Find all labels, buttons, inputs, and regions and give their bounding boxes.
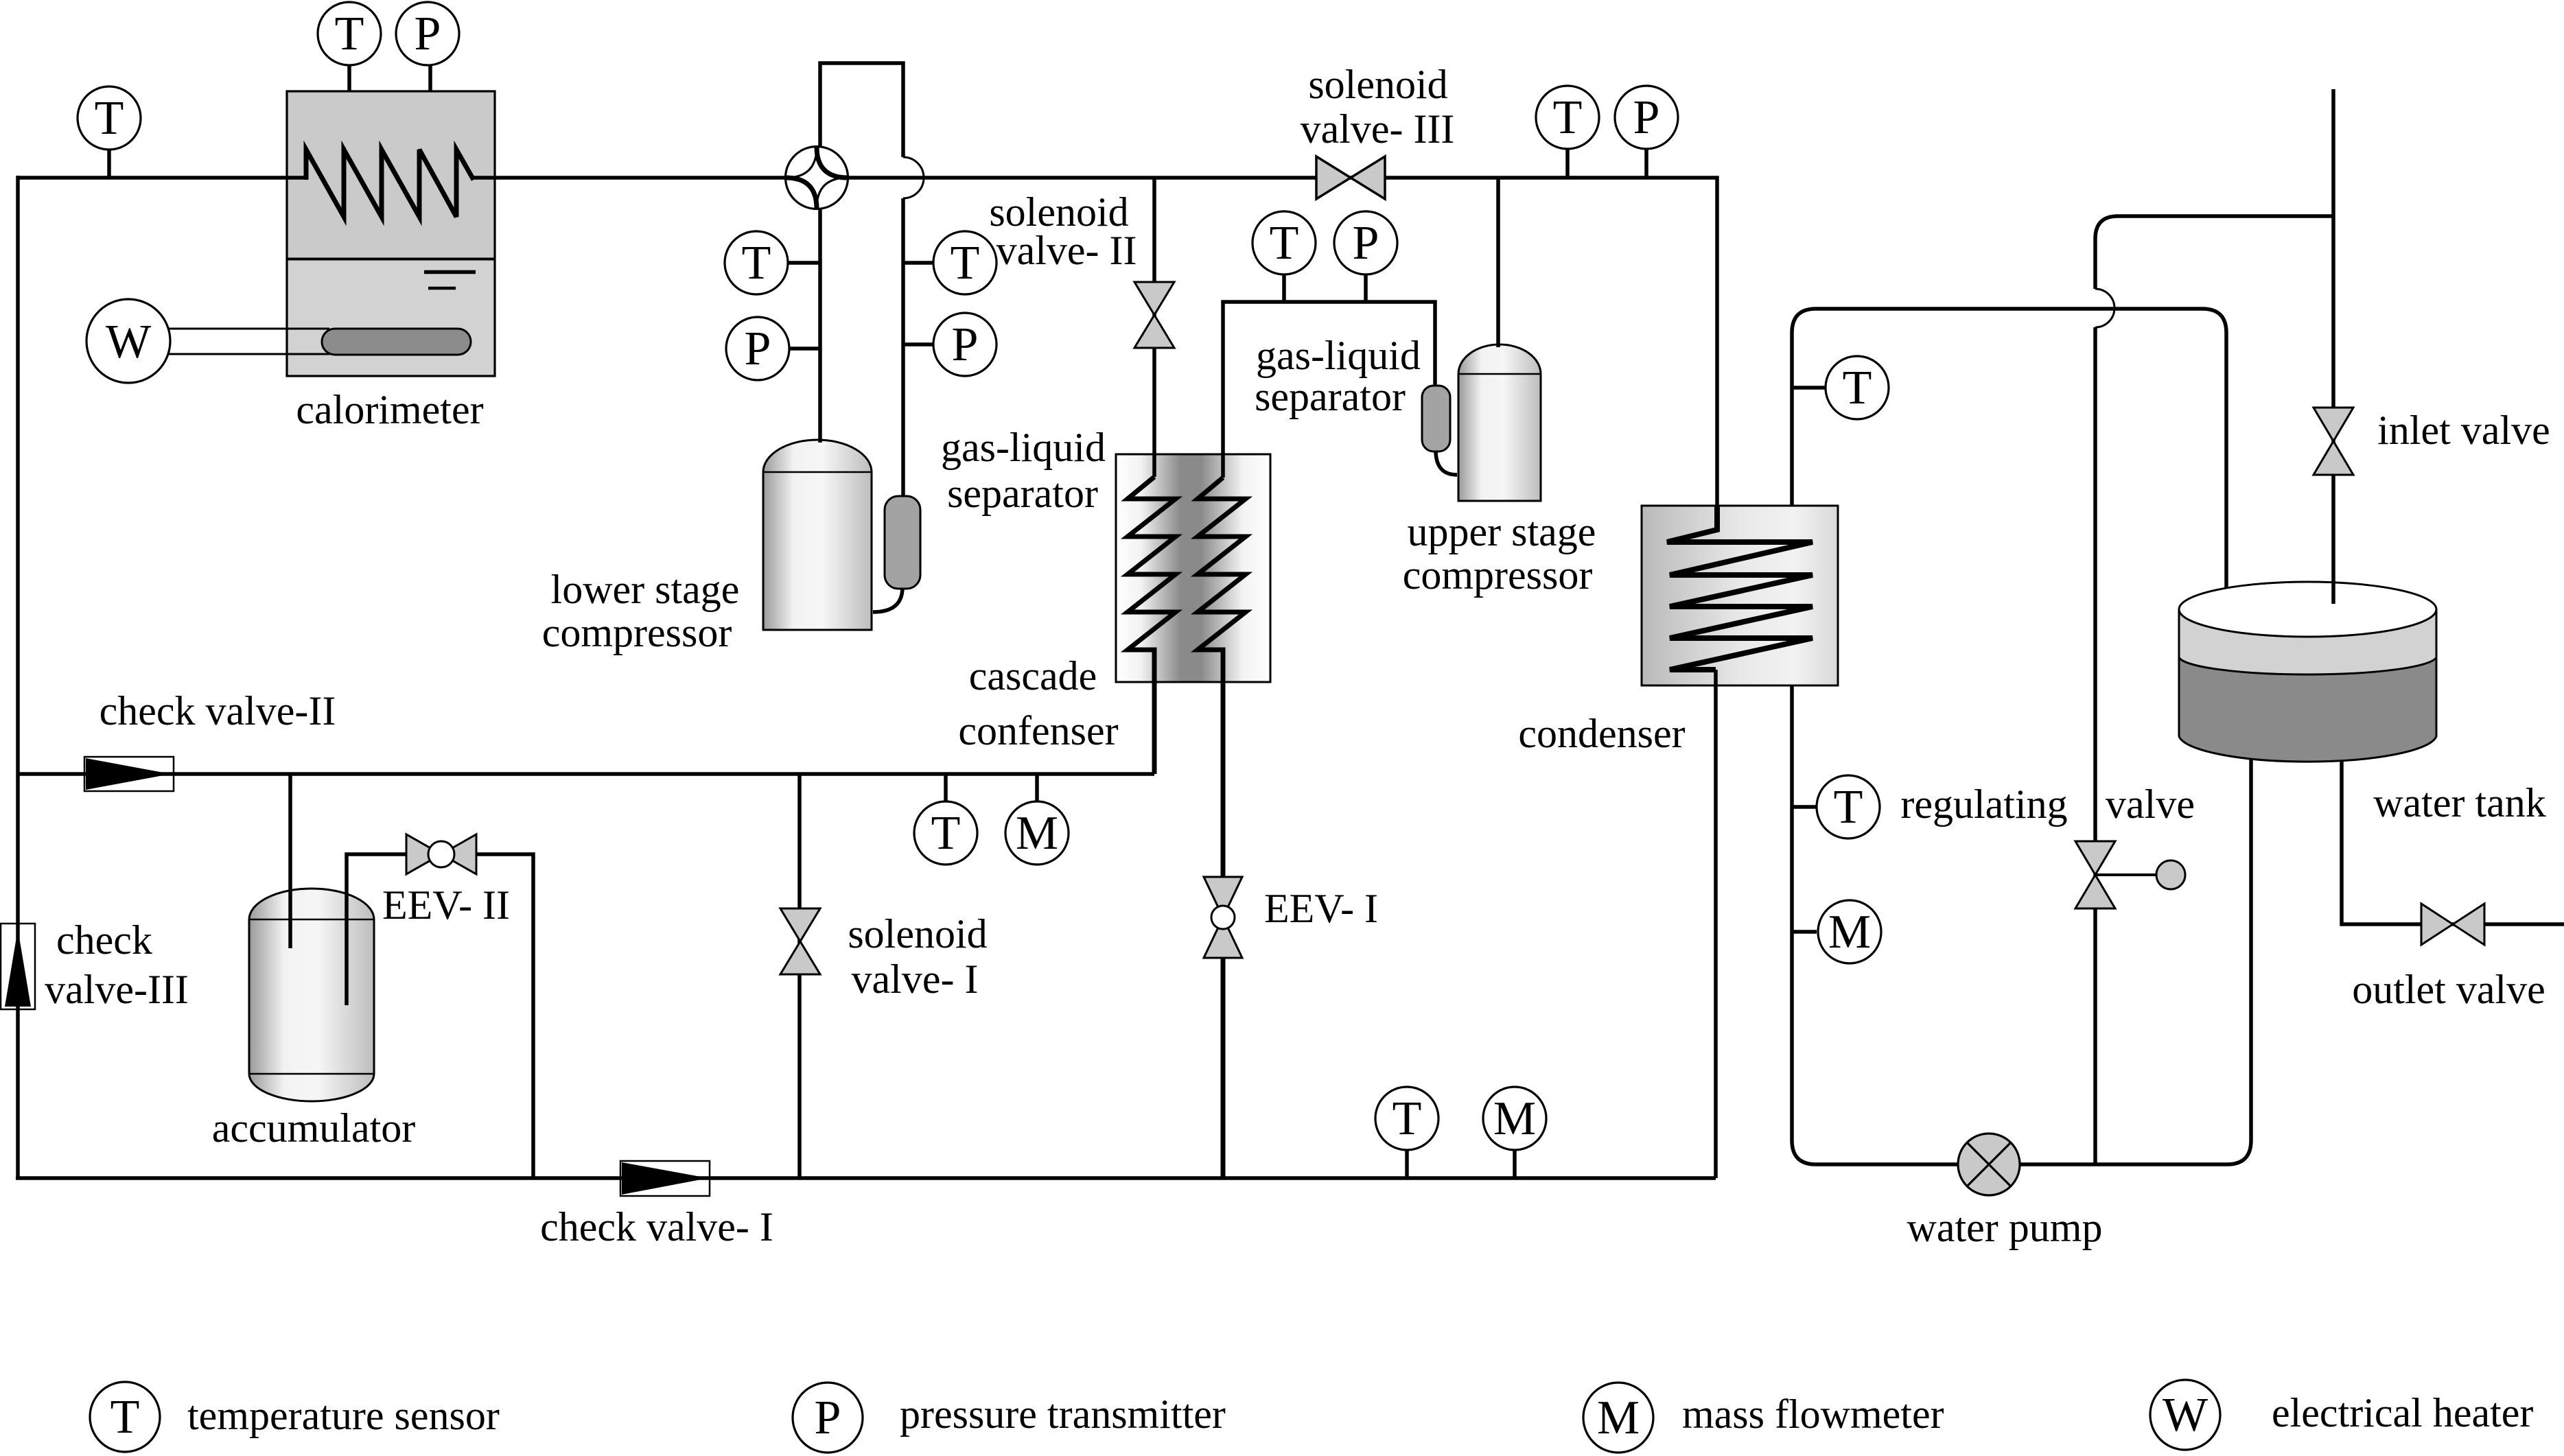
stem: water down T sensor: [1792, 805, 1817, 809]
wire: outlet line from tank: [2342, 760, 2564, 924]
svg-text:confenser: confenser: [958, 708, 1118, 753]
check valve III: [1, 924, 35, 1009]
solenoid valve I: [780, 908, 820, 974]
stem: T sensor on top main line: [107, 150, 111, 178]
stem: check line M sensor: [1035, 774, 1039, 802]
stem: upper suction T sensor: [1282, 274, 1286, 302]
wire: lower separator hook: [873, 587, 902, 612]
wire: water inlet line: [2331, 89, 2335, 604]
svg-text:accumulator: accumulator: [212, 1105, 416, 1151]
stem: calorimeter T sensor: [347, 65, 351, 91]
svg-text:T: T: [1834, 781, 1863, 834]
sensor M check line: [1005, 801, 1069, 865]
svg-text:valve- III: valve- III: [1301, 106, 1455, 152]
cascade condenser right coil: [1198, 478, 1246, 1178]
pipe hop on regulating line: [2095, 289, 2114, 327]
wire: condenser water down leg: [1792, 685, 2251, 1164]
sensor T riser: [933, 231, 997, 294]
svg-text:water pump: water pump: [1907, 1205, 2103, 1250]
legend pressure transmitter: [793, 1383, 1226, 1453]
svg-text:M: M: [1828, 906, 1871, 959]
wire: regulating valve line lower part: [2093, 327, 2097, 1164]
stem: water riser T sensor: [1792, 386, 1826, 390]
sensor P upper suction: [1334, 211, 1397, 274]
stem: riser T sensor right pair: [903, 261, 933, 265]
stem: upper suction P sensor: [1364, 274, 1368, 302]
svg-text:check valve-II: check valve-II: [100, 688, 336, 733]
accumulator vessel: [249, 889, 374, 1101]
svg-text:P: P: [952, 318, 979, 371]
water tank: [2179, 582, 2436, 762]
svg-text:water tank: water tank: [2373, 780, 2546, 825]
svg-text:T: T: [931, 807, 961, 860]
calorimeter vessel: [287, 91, 495, 376]
wire: bottom main line: [16, 1176, 1716, 1180]
svg-text:T: T: [110, 1391, 140, 1444]
condenser shell: [1642, 506, 1838, 685]
wire: riser down to lower separator: [901, 198, 905, 496]
sensor M bottom line: [1483, 1087, 1546, 1150]
sensor T water down: [1817, 775, 1880, 838]
svg-text:pressure transmitter: pressure transmitter: [900, 1392, 1226, 1437]
wire: EEV-II bypass loop: [347, 854, 533, 1178]
solenoid valve II: [1134, 282, 1174, 348]
legend temperature sensor: [90, 1382, 500, 1452]
electrical heater bar inside calorimeter: [322, 329, 471, 355]
svg-text:T: T: [742, 237, 771, 290]
sensor T check line: [914, 801, 977, 865]
svg-text:compressor: compressor: [542, 610, 732, 655]
svg-text:T: T: [1392, 1092, 1422, 1145]
wire: accumulator inlet drop: [288, 774, 292, 948]
svg-text:cascade: cascade: [969, 653, 1097, 698]
wire: top main line left of calorimeter coil: [18, 176, 306, 180]
wire: top main line from calorimeter to condenser corner: [474, 178, 1717, 506]
sensor P riser: [933, 313, 997, 376]
svg-text:P: P: [745, 322, 771, 375]
solenoid valve III: [1316, 156, 1385, 199]
svg-text:check valve- I: check valve- I: [540, 1204, 773, 1249]
wire: upper compressor suction line: [1223, 302, 1435, 478]
wire: solenoid valve I leg: [797, 774, 802, 1178]
svg-text:separator: separator: [947, 471, 1098, 516]
svg-text:M: M: [1493, 1092, 1536, 1145]
electrical heater W symbol: [86, 299, 170, 383]
stem: water down M sensor: [1792, 930, 1817, 934]
svg-text:solenoid: solenoid: [1308, 62, 1447, 107]
stem: bottom line T sensor: [1405, 1150, 1409, 1178]
gas-liquid separator (upper): [1422, 386, 1450, 451]
sensor T on calorimeter: [318, 2, 381, 65]
svg-text:outlet valve: outlet valve: [2352, 967, 2545, 1012]
stem: discharge P sensor: [1644, 149, 1648, 178]
svg-text:electrical heater: electrical heater: [2272, 1390, 2533, 1435]
legend mass flowmeter: [1583, 1383, 1944, 1453]
stem: calorimeter P sensor: [428, 65, 432, 91]
sensor T water riser: [1826, 356, 1889, 419]
stem: check line T sensor: [944, 774, 948, 802]
condenser refrigerant coil: [1667, 506, 1813, 670]
sensor P lower suction: [726, 317, 789, 380]
svg-text:W: W: [106, 316, 151, 368]
stem: discharge T sensor: [1565, 149, 1570, 178]
svg-text:T: T: [951, 237, 980, 290]
svg-text:P: P: [1633, 91, 1660, 144]
svg-text:separator: separator: [1255, 374, 1406, 419]
legend electrical heater: [2150, 1380, 2533, 1450]
svg-text:T: T: [95, 92, 124, 145]
sensor T on top main line: [78, 86, 141, 150]
svg-text:P: P: [815, 1392, 841, 1444]
pipe hop on riser over main line: [903, 157, 924, 198]
cascade condenser shell: [1116, 454, 1270, 682]
wire: condenser water riser: [1792, 309, 2226, 588]
wire: left vertical line: [16, 176, 20, 1178]
svg-text:gas-liquid: gas-liquid: [1256, 333, 1421, 378]
heating coil inside calorimeter: [306, 150, 474, 217]
inlet valve: [2314, 408, 2353, 475]
svg-text:upper stage: upper stage: [1408, 509, 1596, 554]
svg-text:EEV- I: EEV- I: [1264, 886, 1378, 931]
wire: lower compressor suction: [818, 206, 822, 443]
svg-text:M: M: [1597, 1392, 1640, 1444]
lower stage compressor vessel: [763, 440, 872, 630]
sensor T bottom line: [1375, 1087, 1438, 1150]
svg-text:M: M: [1016, 807, 1058, 860]
sensor P discharge: [1615, 86, 1678, 149]
upper stage compressor vessel: [1458, 344, 1541, 501]
svg-text:inlet valve: inlet valve: [2377, 408, 2550, 453]
regulating valve: [2075, 841, 2185, 908]
svg-text:valve-III: valve-III: [45, 967, 189, 1012]
svg-text:W: W: [2163, 1389, 2208, 1442]
cascade condenser left coil: [1128, 477, 1176, 774]
EEV-I valve: [1204, 877, 1242, 958]
svg-text:lower stage: lower stage: [551, 567, 740, 612]
sensor M water down: [1818, 900, 1881, 963]
check valve II: [84, 757, 174, 791]
gas-liquid separator (lower): [885, 496, 920, 589]
stem: riser P sensor right pair: [903, 342, 933, 347]
sensor T discharge: [1536, 86, 1599, 149]
svg-text:T: T: [1270, 217, 1299, 270]
sensor T upper suction: [1252, 211, 1316, 274]
wire: condenser refrigerant exit leg: [1714, 670, 1718, 1178]
svg-text:solenoid: solenoid: [848, 911, 987, 956]
svg-text:check: check: [56, 917, 152, 963]
sensor T lower suction: [725, 231, 788, 294]
svg-text:T: T: [335, 8, 364, 60]
sensor P on calorimeter: [396, 2, 459, 65]
svg-text:compressor: compressor: [1403, 552, 1593, 598]
stem: suction P sensor left pair: [788, 347, 820, 351]
svg-text:valve: valve: [2106, 782, 2195, 827]
wire: solenoid valve II leg to cascade left coil: [1152, 178, 1156, 477]
svg-text:gas-liquid: gas-liquid: [941, 425, 1106, 470]
EEV-II valve: [406, 834, 476, 874]
wire: check valve II line: [18, 772, 1154, 776]
svg-text:valve- I: valve- I: [852, 956, 979, 1002]
svg-text:valve- II: valve- II: [997, 228, 1137, 273]
svg-text:P: P: [1353, 217, 1379, 270]
svg-text:T: T: [1553, 91, 1583, 144]
svg-text:calorimeter: calorimeter: [296, 387, 483, 432]
svg-text:EEV- II: EEV- II: [382, 882, 510, 928]
electrical heater leads: [169, 329, 329, 354]
svg-text:T: T: [1843, 362, 1872, 414]
water pump: [1958, 1134, 2020, 1195]
outlet valve: [2421, 904, 2484, 945]
svg-text:regulating: regulating: [1900, 782, 2067, 827]
stem: bottom line M sensor: [1513, 1150, 1517, 1178]
four-way reversing valve: [786, 147, 848, 209]
svg-text:temperature sensor: temperature sensor: [187, 1393, 500, 1438]
svg-text:P: P: [415, 8, 441, 60]
wire: upper compressor discharge drop: [1496, 178, 1500, 347]
wire: regulating valve line: [2095, 216, 2333, 289]
check valve I: [620, 1161, 710, 1196]
wire: upper separator hook: [1436, 450, 1457, 475]
svg-text:condenser: condenser: [1518, 711, 1685, 756]
svg-text:mass flowmeter: mass flowmeter: [1682, 1392, 1944, 1437]
wire: four-way valve riser: [820, 63, 903, 176]
stem: suction T sensor left pair: [788, 261, 820, 265]
